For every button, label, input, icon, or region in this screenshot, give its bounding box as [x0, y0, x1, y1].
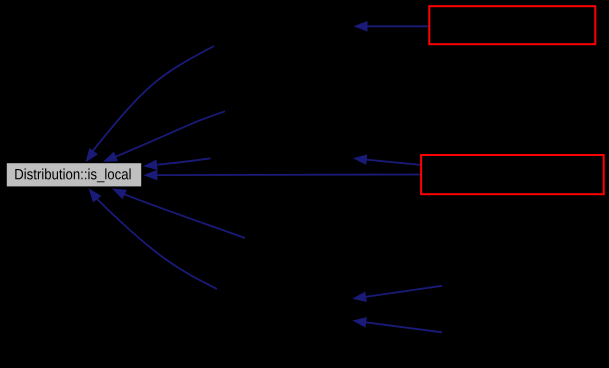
edge b: curve into node top-left [86, 46, 215, 162]
edge i1: bottom right upper [352, 286, 442, 302]
edge i2: bottom right lower [352, 317, 442, 332]
edge h: curve into node bottom-left [89, 188, 218, 289]
edge a: top red box to hidden node [354, 21, 430, 32]
edge e: middle red box to hidden node [353, 154, 421, 165]
edge g: curve into node bottom [112, 189, 245, 239]
node Distribution::is_local (gray filled box) [7, 163, 141, 186]
top red caller box (its label is black-on-black, invisible) [429, 6, 595, 44]
edge d: into node right edge upper [143, 158, 210, 170]
middle red caller box (its label is black-on-black, invisible) [421, 155, 604, 194]
edge f: long horizontal from middle red box [143, 170, 420, 181]
edge c: curve into node top [103, 111, 225, 161]
